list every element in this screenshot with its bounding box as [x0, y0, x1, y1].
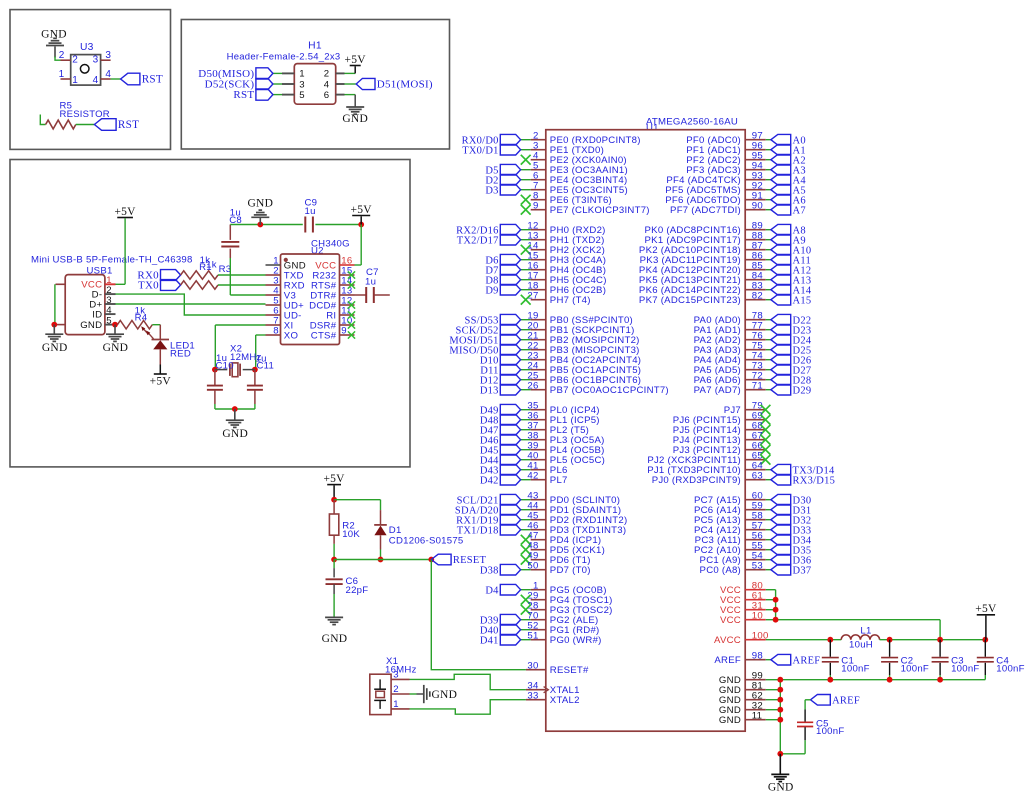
svg-text:53: 53 [752, 560, 763, 571]
capacitor C3 100nF [939, 640, 941, 657]
svg-text:11: 11 [752, 710, 762, 721]
wire D52 flag to H1 pin3 [273, 83, 282, 85]
svg-text:VCC: VCC [720, 615, 741, 626]
svg-text:D41: D41 [480, 635, 499, 646]
svg-text:PL7: PL7 [550, 475, 568, 486]
svg-text:33: 33 [527, 690, 538, 701]
svg-text:RX3/D15: RX3/D15 [793, 475, 836, 486]
svg-text:Mini USB-B 5P-Female-TH_C46398: Mini USB-B 5P-Female-TH_C46398 [31, 255, 193, 266]
U1 port D pins (left) [531, 499, 546, 501]
capacitor C2 100nF [889, 640, 891, 657]
junction VCC 31 [773, 607, 779, 613]
svg-text:1u: 1u [365, 277, 376, 288]
wire VCC pins rail [766, 589, 776, 591]
svg-text:C11: C11 [257, 360, 275, 371]
IC U2 pins [266, 264, 281, 266]
U1 port J pins (right) [745, 409, 766, 411]
svg-text:30: 30 [527, 660, 538, 671]
svg-text:100nF: 100nF [951, 664, 979, 675]
wire D50 flag to H1 pin1 [273, 72, 282, 74]
junction USB1 GND [112, 322, 118, 328]
wire GND to U3 pin2 [55, 57, 61, 61]
svg-text:9: 9 [341, 326, 347, 337]
wire capacitor ground rail [780, 679, 985, 681]
wire H1 pin2 to +5V [345, 72, 356, 74]
wire RESET to U1 pin30 [431, 560, 526, 670]
wire USB1 D+ to U2 UD+ [116, 303, 266, 305]
junction VCC 61 [773, 597, 779, 603]
svg-text:AREF: AREF [793, 655, 821, 666]
connector USB1 shield pins [56, 283, 66, 285]
U1 port F pins (right) [745, 139, 766, 141]
wire reset row [334, 559, 431, 561]
U1 VCC pins [745, 589, 766, 591]
svg-text:2: 2 [393, 684, 399, 695]
svg-text:C10: C10 [216, 360, 234, 371]
wire C8/GND/C9 top rail [230, 224, 302, 226]
wire R5 to RST flag [76, 124, 95, 126]
svg-text:AREF: AREF [714, 655, 741, 666]
net flag TX0 [161, 280, 181, 291]
net flag D52(SCK) [256, 78, 273, 89]
diode D1 CD1206-S01575 [380, 500, 382, 510]
svg-text:PH7 (T4): PH7 (T4) [550, 295, 591, 306]
junction L1 C4 [982, 637, 988, 643]
svg-text:TX1/D18: TX1/D18 [457, 525, 499, 536]
U1 port G pins (left) [531, 589, 546, 591]
net flag D51(MOSI) [356, 78, 375, 89]
U1 pin XTAL2 [526, 699, 546, 701]
container box USB interface section [10, 160, 410, 467]
IC U1 body [546, 130, 745, 732]
ground GND (U2 top) [259, 218, 261, 225]
wire X2 ground rail [215, 408, 255, 410]
wire AVCC row [766, 639, 841, 641]
junction R2 reset [331, 557, 337, 563]
svg-text:2: 2 [324, 69, 330, 80]
svg-text:D9: D9 [485, 285, 498, 296]
svg-text:D51(MOSI): D51(MOSI) [377, 79, 433, 91]
svg-text:1: 1 [72, 75, 78, 86]
svg-text:XO: XO [284, 330, 298, 341]
junction L1 C2 [887, 637, 893, 643]
svg-text:+5V: +5V [323, 473, 345, 485]
svg-text:GND: GND [322, 633, 348, 645]
svg-text:D29: D29 [793, 385, 812, 396]
svg-text:AREF: AREF [832, 695, 860, 706]
net flag RST (H1) [256, 89, 273, 100]
svg-text:D3: D3 [485, 185, 498, 196]
svg-text:PJ0 (RXD3PCINT9): PJ0 (RXD3PCINT9) [652, 475, 741, 486]
svg-text:D38: D38 [480, 565, 499, 576]
svg-text:100nF: 100nF [901, 664, 929, 675]
svg-text:9: 9 [533, 200, 539, 211]
svg-text:GND: GND [222, 428, 248, 440]
junction GND pin 0 [777, 677, 783, 683]
power +5V (USB1) [117, 217, 133, 219]
wire RST flag to H1 pin5 [273, 94, 282, 96]
svg-text:PC0 (A8): PC0 (A8) [700, 565, 741, 576]
svg-text:D42: D42 [480, 475, 499, 486]
svg-text:5: 5 [106, 315, 112, 326]
power +5V (LED1) [159, 365, 161, 375]
svg-text:82: 82 [752, 290, 763, 301]
IC U2 body [281, 254, 340, 345]
svg-text:PB7 (OC0AOC1CPCINT7): PB7 (OC0AOC1CPCINT7) [550, 385, 669, 396]
wire AREF flag [766, 659, 771, 661]
svg-text:PD7 (T0): PD7 (T0) [550, 565, 591, 576]
svg-text:Header-Female-2.54_2x3: Header-Female-2.54_2x3 [227, 52, 341, 63]
svg-text:XTAL2: XTAL2 [550, 695, 580, 706]
U1 port A pins (right) [745, 319, 766, 321]
capacitor C4 100nF [984, 640, 986, 657]
wire X1 pin3 to XTAL1 [410, 674, 526, 689]
svg-text:GND: GND [342, 113, 368, 125]
junction L1 C3 [937, 637, 943, 643]
svg-text:U1: U1 [646, 123, 659, 134]
svg-text:GND: GND [80, 320, 102, 331]
container box H1 ICSP header section [181, 20, 449, 150]
svg-text:+5V: +5V [351, 204, 373, 216]
svg-text:ATMEGA2560-16AU: ATMEGA2560-16AU [646, 117, 738, 128]
wire U3 pin4 to RST flag [111, 78, 121, 80]
junction X2 left [212, 367, 218, 373]
svg-text:R4: R4 [135, 313, 148, 324]
wire GND pins rail [766, 679, 781, 681]
svg-text:A15: A15 [793, 295, 812, 306]
svg-text:TX0: TX0 [138, 280, 159, 292]
svg-text:TX0/D1: TX0/D1 [462, 145, 499, 156]
svg-text:U3: U3 [80, 42, 94, 53]
U1 port C pins (right) [745, 499, 766, 501]
svg-text:98: 98 [752, 650, 763, 661]
svg-text:A7: A7 [793, 205, 806, 216]
svg-text:RST: RST [142, 74, 163, 86]
wire +5V to USB1 VCC [124, 218, 126, 284]
capacitor C1 100nF [829, 640, 831, 657]
junction GND pin 4 [777, 717, 783, 723]
wire +5V junction to D1 [334, 499, 380, 501]
net flag RESET [431, 554, 451, 565]
svg-text:PE7 (CLKOICP3INT7): PE7 (CLKOICP3INT7) [550, 205, 650, 216]
wire GND rail bottom [780, 753, 805, 755]
container box top-left (reset button section) [10, 10, 171, 150]
svg-text:+5V: +5V [150, 376, 172, 388]
capacitor C5 [805, 699, 810, 701]
svg-text:ID: ID [92, 309, 102, 320]
svg-text:4: 4 [93, 75, 99, 86]
U1 pin RESET# [526, 669, 546, 671]
svg-text:10: 10 [752, 610, 763, 621]
svg-text:22pF: 22pF [346, 585, 369, 596]
junction +5V reset [331, 497, 337, 503]
junction GND bottom [777, 751, 783, 757]
svg-text:GND: GND [719, 715, 741, 726]
junction X2 ground [232, 406, 238, 412]
U1 port H pins (left) [531, 229, 546, 231]
wire +5V to U2 VCC [360, 225, 362, 266]
net flag D50(MISO) [256, 68, 273, 79]
capacitor C6 [333, 560, 335, 569]
wire R1 to U2 TXD [218, 274, 266, 276]
junction C3 gnd [937, 677, 943, 683]
U1 port K pins (right) [745, 229, 766, 231]
svg-text:TX2/D17: TX2/D17 [457, 235, 499, 246]
svg-text:PF7 (ADC7TDI): PF7 (ADC7TDI) [670, 205, 741, 216]
junction USB1 shield GND [51, 322, 57, 328]
junction +5V rail [358, 222, 364, 228]
svg-text:PG0 (WR#): PG0 (WR#) [550, 635, 602, 646]
svg-text:D13: D13 [480, 385, 499, 396]
header H1 pins [282, 72, 294, 74]
svg-text:1u: 1u [305, 206, 316, 217]
svg-text:1: 1 [299, 69, 305, 80]
svg-text:+5V: +5V [975, 603, 997, 615]
svg-text:1: 1 [59, 69, 65, 80]
svg-text:90: 90 [752, 200, 763, 211]
svg-text:D37: D37 [793, 565, 812, 576]
ground GND (USB1 shield) [53, 325, 55, 334]
header H1 body [294, 64, 335, 105]
net flag RST (R5) [94, 119, 116, 131]
svg-text:10K: 10K [342, 529, 360, 540]
svg-text:71: 71 [752, 380, 763, 391]
svg-text:GND: GND [42, 342, 68, 354]
svg-text:1: 1 [393, 699, 399, 710]
svg-text:RST: RST [233, 89, 254, 101]
net flag RST (U3) [121, 73, 140, 85]
svg-text:AVCC: AVCC [714, 635, 741, 646]
power +5V (U2 VCC) [352, 215, 370, 217]
junction AVCC C1 [827, 637, 833, 643]
connector USB1 body [65, 275, 105, 335]
power +5V (AVCC) [977, 614, 995, 616]
connector USB1 pins [105, 283, 116, 285]
svg-text:4: 4 [324, 79, 330, 90]
wire U2 XI to X2 [215, 324, 265, 326]
net flag AREF (C5) [811, 695, 831, 706]
svg-text:100nF: 100nF [996, 664, 1024, 675]
svg-text:PK7 (ADC15PCINT23): PK7 (ADC15PCINT23) [639, 295, 741, 306]
svg-text:3: 3 [393, 669, 399, 680]
svg-text:3: 3 [299, 79, 305, 90]
svg-text:6: 6 [324, 90, 330, 101]
U1 port L pins (left) [531, 409, 546, 411]
svg-text:2: 2 [72, 54, 78, 65]
svg-text:R3: R3 [219, 264, 232, 275]
svg-text:GND: GND [247, 198, 273, 210]
junction GND pin 1 [777, 687, 783, 693]
wire L1 to +5V [880, 639, 986, 641]
junction VCC 10 [773, 617, 779, 623]
wire R4 to LED1 [152, 324, 160, 326]
svg-text:100nF: 100nF [816, 726, 844, 737]
svg-text:2: 2 [59, 50, 65, 61]
wire H1 pin4 to D51 flag [345, 83, 357, 85]
svg-text:100nF: 100nF [841, 664, 869, 675]
ground GND (H1 pin6) [346, 106, 364, 108]
junction GND pin 2 [777, 697, 783, 703]
ground GND (C6) [325, 616, 343, 618]
junction RESET flag [428, 557, 434, 563]
wire USB1 D- to U2 UD- [116, 294, 266, 315]
svg-text:CD1206-S01575: CD1206-S01575 [389, 535, 464, 546]
wire U2 XO to X2 [256, 334, 266, 336]
svg-text:GND: GND [103, 342, 129, 354]
no-connect X marks U2 right pins [348, 271, 355, 278]
ground GND (X1 pin2, rotated) [410, 693, 417, 695]
junction top rail GND [257, 222, 263, 228]
ground GND (USB1 pin5) [114, 325, 116, 334]
junction D1 reset [378, 557, 384, 563]
svg-text:4: 4 [106, 305, 112, 316]
svg-text:CTS#: CTS# [311, 330, 337, 341]
svg-text:RST: RST [118, 119, 139, 131]
net flag AREF (pin98) [771, 654, 791, 665]
wire C8 to U2 V3 [229, 258, 231, 295]
svg-text:GND: GND [432, 689, 458, 701]
ground GND (X2) [234, 409, 236, 420]
junction GND pin 3 [777, 707, 783, 713]
svg-text:1k: 1k [206, 260, 217, 271]
svg-text:63: 63 [752, 470, 763, 481]
svg-text:10uH: 10uH [849, 640, 873, 651]
junction X2 right [252, 367, 258, 373]
wire X1 pin1 to XTAL2 [410, 700, 526, 715]
wire USB1 shield to GND [54, 284, 56, 324]
net flag RX0 [161, 270, 181, 281]
svg-text:PA7 (AD7): PA7 (AD7) [694, 385, 741, 396]
resistor R2 [333, 500, 335, 514]
LED LED1 RED [159, 325, 161, 340]
U1 GND pins [745, 679, 766, 681]
ground GND (U1) [779, 754, 781, 774]
junction C1 gnd [827, 677, 833, 683]
svg-text:3: 3 [105, 50, 111, 61]
power +5V (H1 pin2) [350, 65, 361, 67]
svg-text:RESET#: RESET# [550, 665, 589, 676]
svg-text:U2: U2 [311, 246, 324, 257]
wire C9 to +5V [315, 224, 361, 226]
svg-text:GND: GND [768, 781, 794, 793]
svg-text:H1: H1 [308, 41, 322, 52]
U1 port E pins (left) [531, 139, 546, 141]
svg-text:4: 4 [105, 69, 111, 80]
svg-text:5: 5 [299, 90, 305, 101]
junction C2 gnd [887, 677, 893, 683]
svg-text:RED: RED [170, 349, 191, 360]
U1 pin XTAL1 [526, 689, 546, 691]
svg-text:3: 3 [93, 54, 99, 65]
U1 port B pins (left) [531, 319, 546, 321]
svg-text:8: 8 [273, 326, 279, 337]
wire H1 pin6 to GND [345, 94, 356, 96]
U1 AVCC pin [745, 639, 766, 641]
power +5V (reset) [327, 484, 341, 486]
svg-text:+5V: +5V [114, 206, 136, 218]
U1 AREF pin [745, 659, 766, 661]
svg-text:D4: D4 [485, 585, 499, 596]
wire R3 to U2 RXD [218, 284, 266, 286]
svg-text:+5V: +5V [345, 54, 367, 66]
